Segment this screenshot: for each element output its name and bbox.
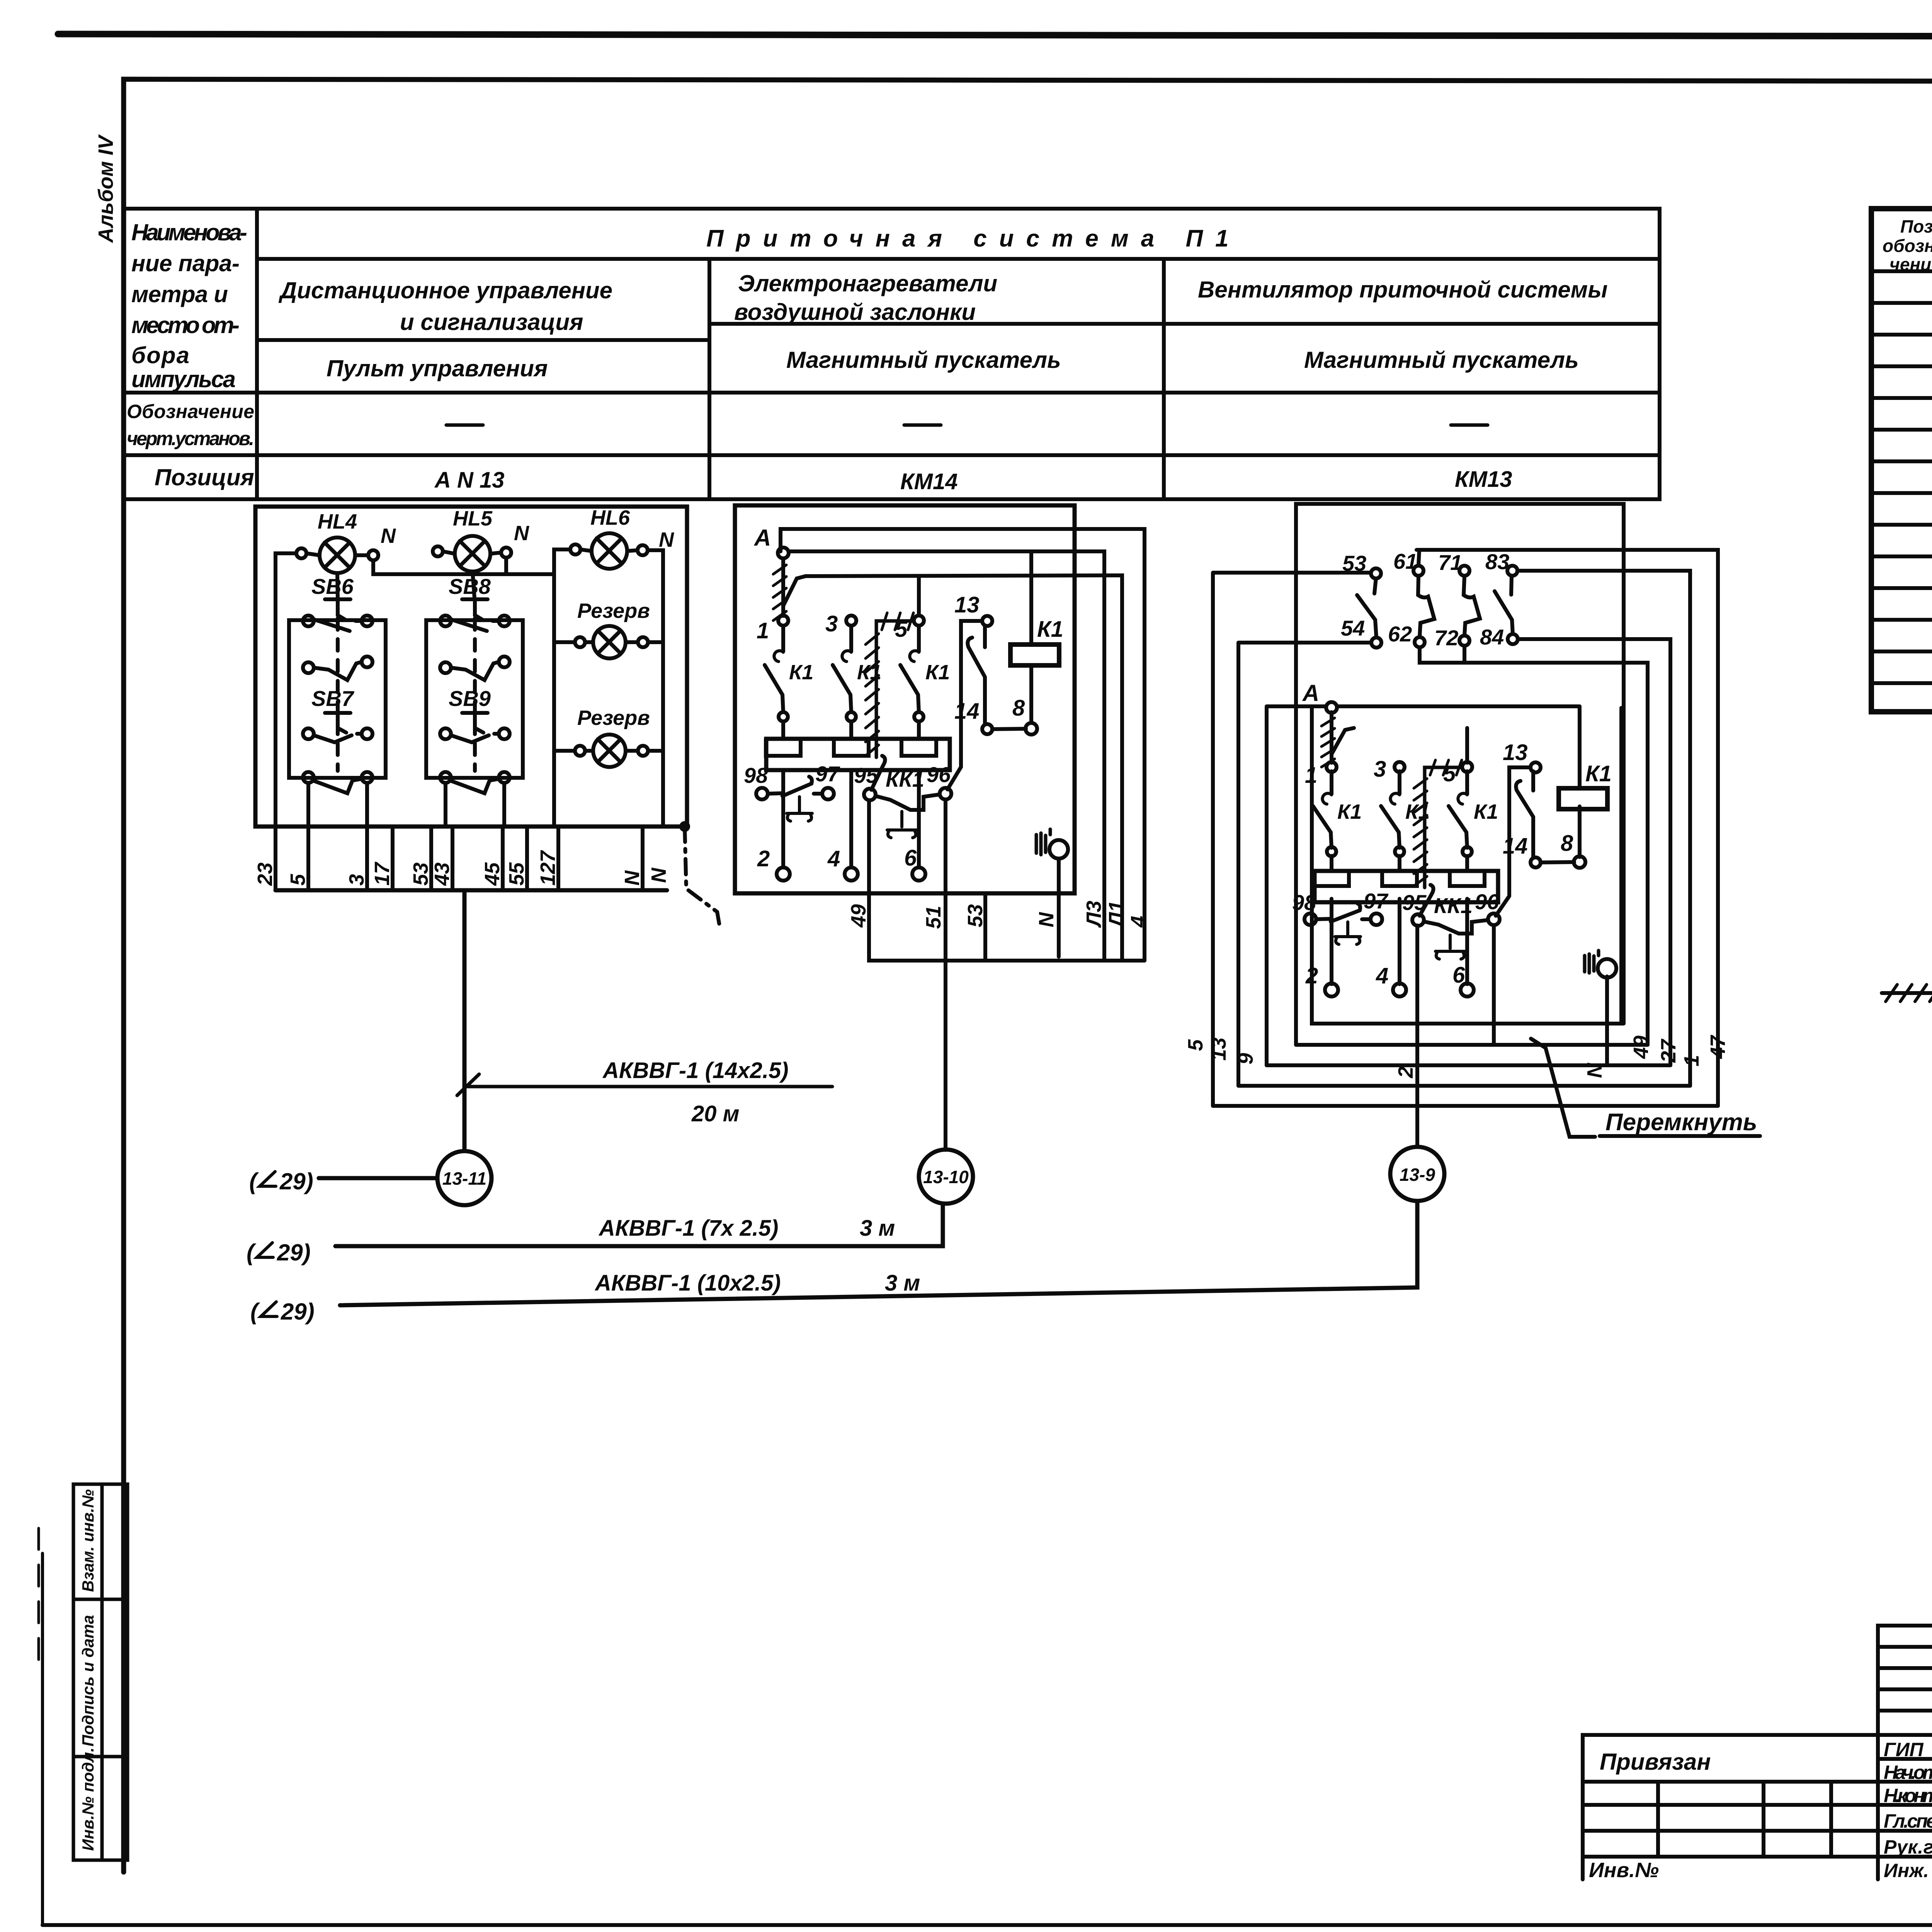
svg-text:АКВВГ-1 (10х2.5): АКВВГ-1 (10х2.5) xyxy=(594,1270,781,1296)
svg-text:13: 13 xyxy=(954,592,980,617)
svg-text:Инв.№ подл.: Инв.№ подл. xyxy=(79,1748,97,1851)
pushbutton SB6 middle contacts xyxy=(303,662,314,673)
svg-text:К1: К1 xyxy=(1037,617,1063,642)
junction box 13-10 xyxy=(919,1150,973,1204)
svg-text:Гл.спец.: Гл.спец. xyxy=(1884,1810,1932,1832)
svg-text:6: 6 xyxy=(904,845,917,871)
svg-text:Привязан: Привязан xyxy=(1600,1749,1711,1775)
svg-text:13: 13 xyxy=(1503,740,1528,765)
wire reserve lamps left connections xyxy=(554,642,575,751)
svg-text:A: A xyxy=(753,525,771,551)
parts table row line 3 xyxy=(1871,364,1932,368)
lamp panel terminal bus bottom line xyxy=(276,888,667,893)
terminal 4 (KM13) xyxy=(1393,983,1406,997)
contact K1 pole 5 (KM14) xyxy=(914,616,924,626)
svg-text:13-11: 13-11 xyxy=(442,1168,486,1189)
wire contact columns to terminals (KM13) xyxy=(1332,899,1467,984)
svg-text:45: 45 xyxy=(481,862,504,886)
heater bar (KM14) xyxy=(766,739,950,770)
svg-text:43: 43 xyxy=(430,862,454,886)
contact K1 pole 1 (KM14) xyxy=(778,616,788,626)
terminal 6 (KM13) xyxy=(1461,983,1474,997)
KM14 bottom collector line xyxy=(869,800,1145,961)
wire 84 line (KM13) xyxy=(1518,639,1670,1065)
svg-text:96: 96 xyxy=(1475,889,1499,914)
terminal 2 (KM14) xyxy=(777,867,790,881)
wire HL4 to SB6 xyxy=(337,573,338,598)
cable label AKVVG-1 14x2.5 xyxy=(457,1074,832,1095)
svg-text:Магнитный пускатель: Магнитный пускатель xyxy=(1304,347,1579,373)
wire coil K1 feed (KM14) xyxy=(1029,551,1033,723)
svg-text:метра и: метра и xyxy=(131,281,228,307)
privyazan block xyxy=(1583,1735,1878,1879)
wire contact columns to terminals (KM14) xyxy=(783,770,919,867)
svg-text:К1: К1 xyxy=(1585,761,1612,786)
coil K1 (KM14) xyxy=(1010,645,1059,665)
svg-text:Инж.: Инж. xyxy=(1884,1860,1929,1881)
KM13 inner box xyxy=(1312,708,1621,1024)
pushbutton block SB8/SB9 xyxy=(426,620,523,778)
svg-text:Резерв: Резерв xyxy=(577,599,650,622)
wire feed contact 5 (KM14) xyxy=(917,576,921,616)
svg-text:N: N xyxy=(647,867,670,883)
header table oboznachenie row top line xyxy=(124,391,1660,395)
svg-text:HL6: HL6 xyxy=(590,506,630,529)
svg-text:97: 97 xyxy=(1364,889,1389,913)
wire HL5 terminals xyxy=(443,551,501,554)
svg-text:SB8: SB8 xyxy=(449,574,491,599)
terminal 4 (KM14) xyxy=(845,867,858,881)
parts table row line 5 xyxy=(1871,428,1932,432)
svg-text:Позиция: Позиция xyxy=(155,464,254,490)
svg-text:N: N xyxy=(1583,1063,1606,1078)
svg-text:98: 98 xyxy=(744,763,768,787)
wire L29 row3 cable xyxy=(340,1201,1417,1305)
svg-text:N: N xyxy=(381,524,396,548)
wire feed contact 5 (KM13) xyxy=(1465,728,1469,763)
pushbutton SB8 middle contacts xyxy=(440,662,451,673)
contact K1 pole 1 (KM13) xyxy=(1327,762,1337,772)
svg-text:14: 14 xyxy=(1503,833,1528,859)
header table col2/col3 line xyxy=(1162,259,1166,499)
wire lamp panel drop to box 13-11 xyxy=(463,890,467,1151)
svg-text:К1: К1 xyxy=(1474,800,1498,823)
svg-text:Рук.гр.: Рук.гр. xyxy=(1884,1836,1932,1858)
contact K1 pole 5 (KM13) xyxy=(1462,762,1472,772)
svg-text:Поз.: Поз. xyxy=(1900,216,1932,236)
svg-text:1: 1 xyxy=(757,618,769,643)
svg-text:Н.контр.: Н.контр. xyxy=(1884,1785,1932,1806)
svg-text:HL5: HL5 xyxy=(453,507,493,530)
revision table xyxy=(1878,1626,1932,1879)
wire 53 stub (KM14) xyxy=(983,893,987,961)
svg-text:29): 29) xyxy=(277,1240,311,1265)
svg-text:N: N xyxy=(659,528,674,551)
parts table row line 8 xyxy=(1871,523,1932,527)
svg-text:ГИП: ГИП xyxy=(1884,1739,1924,1760)
svg-text:4: 4 xyxy=(1127,916,1150,928)
svg-text:ние пара-: ние пара- xyxy=(131,250,240,276)
junction box 13-9 xyxy=(1390,1147,1444,1201)
parts table row line 4 xyxy=(1871,396,1932,400)
svg-text:А N 13: А N 13 xyxy=(434,468,505,493)
svg-text:2: 2 xyxy=(1305,963,1318,988)
svg-text:черт.установ.: черт.установ. xyxy=(127,428,254,449)
svg-text:3: 3 xyxy=(1374,757,1386,782)
KM14 outer cable loop xyxy=(735,505,1075,893)
svg-text:N: N xyxy=(514,522,529,545)
svg-text:13: 13 xyxy=(1207,1037,1230,1061)
lamp HL5 xyxy=(455,536,490,571)
KM13 bottom lines xyxy=(1213,1104,1718,1108)
fold mark dashes xyxy=(37,1528,40,1665)
svg-text:5: 5 xyxy=(286,874,310,886)
header table oboznachenie row bottom line xyxy=(124,453,1660,457)
junction box 13-11 xyxy=(437,1151,492,1205)
parts table row line 2 xyxy=(1871,333,1932,337)
svg-text:Инв.№: Инв.№ xyxy=(1589,1859,1659,1882)
wire L29 to 13-11 xyxy=(319,1176,437,1180)
heater bar (KM13) xyxy=(1315,871,1498,902)
svg-text:8: 8 xyxy=(1012,696,1025,721)
svg-text:Нач.отд.: Нач.отд. xyxy=(1884,1762,1932,1783)
svg-text:62: 62 xyxy=(1388,622,1412,646)
svg-text:5: 5 xyxy=(1184,1039,1207,1051)
svg-text:SB6: SB6 xyxy=(311,574,354,599)
pushbutton SB6 plunger dashed link xyxy=(336,618,340,771)
KM14 cable loop 2 xyxy=(781,529,1145,961)
svg-text:АКВВГ-1 (14х2.5): АКВВГ-1 (14х2.5) xyxy=(602,1058,789,1083)
parts table row line 13 xyxy=(1871,681,1932,685)
parts table row line 11 xyxy=(1871,618,1932,622)
wire 62 line (KM13) xyxy=(1420,647,1648,1045)
KM14 supply line A xyxy=(789,551,1104,961)
KM14 cable loop 3 xyxy=(806,575,1122,961)
svg-text:Дистанционное управление: Дистанционное управление xyxy=(278,277,612,303)
parts table row line 10 xyxy=(1871,586,1932,590)
svg-text:Взам. инв.№: Взам. инв.№ xyxy=(79,1489,97,1592)
svg-text:98: 98 xyxy=(1292,890,1316,915)
wire 14 to node 8 (KM13) xyxy=(1541,862,1574,862)
contact K1 pole 3 (KM13) xyxy=(1395,762,1405,772)
svg-text:1: 1 xyxy=(1680,1055,1703,1066)
lamp HL6 xyxy=(592,533,627,569)
peremknut leader xyxy=(1531,1039,1595,1137)
svg-text:3: 3 xyxy=(345,874,368,886)
col1 empty dash xyxy=(446,423,483,427)
svg-text:27: 27 xyxy=(1657,1038,1680,1063)
svg-text:14: 14 xyxy=(954,699,980,724)
svg-text:Л1: Л1 xyxy=(1105,901,1128,928)
parts table row line 1 xyxy=(1871,301,1932,305)
wire HL6 N right rail xyxy=(643,550,663,890)
header table col1/col2 line xyxy=(707,259,711,499)
svg-text:54: 54 xyxy=(1341,616,1365,640)
svg-text:импульса: импульса xyxy=(131,366,236,392)
wire 72 stub (KM13) xyxy=(1463,646,1466,663)
svg-text:Пульт управления: Пульт управления xyxy=(327,355,548,381)
svg-text:Электронагреватели: Электронагреватели xyxy=(738,270,997,296)
svg-text:96: 96 xyxy=(927,762,951,787)
svg-text:6: 6 xyxy=(1452,963,1465,988)
svg-text:A: A xyxy=(1302,680,1319,706)
parts table outline xyxy=(1871,209,1932,712)
coil K1 (KM13) xyxy=(1559,788,1607,809)
svg-text:Приточная система П1: Приточная система П1 xyxy=(706,225,1241,252)
svg-text:КК1: КК1 xyxy=(1434,893,1473,918)
svg-text:воздушной заслонки: воздушной заслонки xyxy=(734,299,976,325)
wire L29 row2 cable xyxy=(335,1204,943,1246)
node A (KM14) xyxy=(778,548,789,558)
svg-text:51: 51 xyxy=(922,906,945,929)
svg-text:4: 4 xyxy=(1376,963,1388,988)
wire 61 feed line (KM13) xyxy=(1417,550,1718,1106)
wire HL6 terminals xyxy=(580,549,638,551)
contact K1 pole 3 (KM14) xyxy=(846,616,856,626)
svg-text:Вентилятор приточной системы: Вентилятор приточной системы xyxy=(1198,277,1607,303)
wire A hatched drop (KM14) xyxy=(781,558,785,616)
svg-text:29): 29) xyxy=(279,1168,313,1194)
sheet outer left border segment xyxy=(41,1553,44,1925)
wire SB8 legs to bus xyxy=(431,783,558,890)
svg-text:Обозначение: Обозначение xyxy=(127,401,254,422)
pushbutton SB7 bottom contacts xyxy=(303,772,314,783)
wire drop to box 13-10 xyxy=(944,799,947,1150)
svg-text:Резерв: Резерв xyxy=(577,706,650,730)
svg-text:N: N xyxy=(1035,912,1058,927)
wire rail 5 (KM13) xyxy=(1213,573,1371,1106)
svg-text:АКВВГ-1 (7х 2.5): АКВВГ-1 (7х 2.5) xyxy=(598,1216,778,1241)
lamp HL4 xyxy=(320,537,355,573)
svg-text:29): 29) xyxy=(281,1299,315,1325)
wire HL4 terminals xyxy=(306,553,368,555)
wire A line to coil (KM13) xyxy=(1337,704,1580,708)
svg-text:3: 3 xyxy=(825,611,838,636)
svg-text:обозна-: обозна- xyxy=(1883,236,1932,256)
parts table header bottom line xyxy=(1871,269,1932,273)
svg-text:17: 17 xyxy=(371,861,394,886)
demolish hatch column (KM14) xyxy=(876,621,912,757)
svg-text:49: 49 xyxy=(847,904,870,928)
wire lamp panel left rail 23 xyxy=(276,553,296,890)
svg-text:49: 49 xyxy=(1629,1036,1653,1059)
wire SB6 legs to bus xyxy=(308,783,393,890)
svg-text:К1: К1 xyxy=(1337,800,1362,823)
svg-text:13-10: 13-10 xyxy=(923,1167,969,1187)
wire A hatched drop (KM13) xyxy=(1330,712,1333,763)
svg-text:Наименова-: Наименова- xyxy=(131,219,247,245)
ground symbol (KM14) xyxy=(1036,829,1050,855)
svg-text:место от-: место от- xyxy=(131,312,240,338)
svg-text:Альбом IV: Альбом IV xyxy=(94,134,117,243)
terminal 6 (KM14) xyxy=(912,867,925,881)
header table label column line xyxy=(255,209,259,499)
wire HL4 N to HL5 N bus xyxy=(373,558,554,574)
svg-text:Л3: Л3 xyxy=(1082,901,1105,928)
svg-text:SB9: SB9 xyxy=(449,686,491,711)
parts table row line 12 xyxy=(1871,650,1932,653)
svg-text:13-9: 13-9 xyxy=(1400,1165,1435,1185)
wire N dash-dot tail xyxy=(679,821,690,832)
col2 empty dash xyxy=(904,423,941,427)
svg-text:и сигнализация: и сигнализация xyxy=(400,309,583,335)
svg-text:55: 55 xyxy=(505,862,528,886)
svg-text:N: N xyxy=(621,870,644,886)
wire ground drop (KM13) xyxy=(1605,976,1609,1063)
svg-text:SB7: SB7 xyxy=(311,686,355,711)
header table outline xyxy=(124,209,1660,499)
demolish hatch column (KM13) xyxy=(1425,767,1460,888)
sheet top edge line xyxy=(58,34,1932,37)
wire 14 to node 8 (KM14) xyxy=(992,729,1026,729)
svg-text:К1: К1 xyxy=(925,661,950,684)
svg-text:72: 72 xyxy=(1434,626,1458,650)
parts table row line 7 xyxy=(1871,491,1932,495)
pushbutton SB9 bottom contacts xyxy=(440,772,451,783)
svg-text:2: 2 xyxy=(1394,1066,1417,1078)
lamp panel box xyxy=(255,507,687,827)
svg-text:К1: К1 xyxy=(789,661,813,684)
parts table row line 6 xyxy=(1871,459,1932,463)
wire branch to line L3 (KM14) xyxy=(783,576,806,606)
wire 96 jumper drop (KM13) xyxy=(1492,925,1496,1045)
demolish legend hatched line xyxy=(1882,991,1932,995)
wire coil K1 feed (KM13) xyxy=(1578,706,1582,857)
svg-text:чение: чение xyxy=(1889,254,1932,274)
terminal 2 (KM13) xyxy=(1325,983,1338,997)
svg-text:8: 8 xyxy=(1561,831,1573,856)
svg-text:3 м: 3 м xyxy=(860,1216,895,1241)
svg-text:53: 53 xyxy=(1342,551,1366,575)
svg-text:Магнитный пускатель: Магнитный пускатель xyxy=(786,347,1061,373)
header table row line xyxy=(257,257,1660,261)
svg-text:КК1: КК1 xyxy=(886,767,924,791)
svg-text:2: 2 xyxy=(757,846,770,871)
svg-text:4: 4 xyxy=(827,846,840,871)
svg-text:97: 97 xyxy=(815,762,840,786)
pushbutton block SB6/SB7 xyxy=(289,620,386,778)
svg-text:127: 127 xyxy=(536,850,560,886)
wire rail 13 (KM13) xyxy=(1238,643,1371,1086)
ground symbol (KM13) xyxy=(1585,951,1599,973)
svg-text:23: 23 xyxy=(253,862,277,886)
wire drop to box 13-9 (KM13) xyxy=(1415,925,1419,1147)
svg-text:HL4: HL4 xyxy=(318,510,357,533)
parts table row line 9 xyxy=(1871,554,1932,558)
wire HL5 to SB8 xyxy=(473,571,474,598)
svg-text:3 м: 3 м xyxy=(885,1270,920,1296)
svg-text:47: 47 xyxy=(1706,1034,1730,1059)
svg-text:Подпись и дата: Подпись и дата xyxy=(79,1615,97,1747)
wire HL6 left rail xyxy=(554,549,570,827)
pushbutton SB8 plunger dashed link xyxy=(473,618,477,771)
svg-text:84: 84 xyxy=(1480,625,1504,649)
col3 empty dash xyxy=(1451,423,1488,427)
svg-text:53: 53 xyxy=(964,904,987,927)
node A (KM13) xyxy=(1326,702,1337,713)
header table split line col 1 xyxy=(257,338,709,342)
sheet outer bottom border xyxy=(43,1923,1932,1927)
svg-text:20 м: 20 м xyxy=(691,1101,740,1126)
header table split line cols 2-3 xyxy=(709,322,1660,326)
margin label stack outline xyxy=(73,1484,128,1860)
svg-text:9: 9 xyxy=(1234,1053,1257,1065)
svg-text:КМ14: КМ14 xyxy=(900,469,957,494)
svg-text:Перемкнуть: Перемкнуть xyxy=(1605,1109,1757,1136)
KM13 outer cable rect xyxy=(1296,504,1624,1045)
svg-text:53: 53 xyxy=(409,862,432,886)
wire ground drop (KM14) xyxy=(1057,859,1061,957)
personnel rows xyxy=(1878,1759,1932,1857)
svg-text:бора: бора xyxy=(131,342,189,368)
wire branch to line L3 (KM13) xyxy=(1332,728,1354,754)
wire 83 line (KM13) xyxy=(1519,571,1690,1086)
svg-text:КМ13: КМ13 xyxy=(1455,467,1512,492)
svg-text:1: 1 xyxy=(1305,763,1317,788)
wire rail 9 / A feed (KM13) xyxy=(1267,706,1326,1065)
